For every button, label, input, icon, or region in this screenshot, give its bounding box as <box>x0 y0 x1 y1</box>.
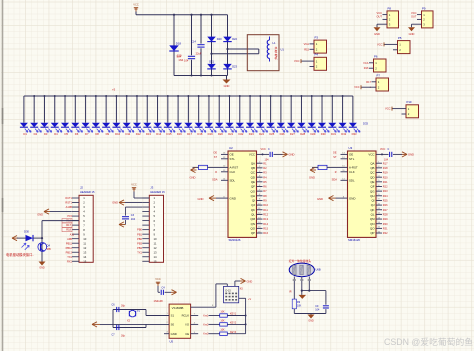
svg-text:CSDN @爱吃葡萄的鱼: CSDN @爱吃葡萄的鱼 <box>384 336 473 347</box>
svg-text:D29: D29 <box>310 132 315 136</box>
svg-text:VCC: VCC <box>155 277 161 281</box>
svg-text:R25: R25 <box>383 199 388 203</box>
svg-text:D5: D5 <box>65 132 69 136</box>
svg-text:15: 15 <box>83 259 87 263</box>
svg-text:GND: GND <box>289 153 295 157</box>
svg-text:U2: U2 <box>229 146 233 150</box>
svg-text:QI: QI <box>252 199 255 203</box>
svg-text:D24: D24 <box>259 132 264 136</box>
svg-text:SDA: SDA <box>332 178 338 182</box>
svg-text:QJ: QJ <box>371 203 375 207</box>
svg-text:D30: D30 <box>24 230 29 234</box>
svg-text:104: 104 <box>265 158 270 161</box>
svg-text:VCA: VCA <box>363 61 369 65</box>
svg-text:QC: QC <box>370 171 374 175</box>
svg-text:GND: GND <box>230 196 236 200</box>
svg-text:A-RST: A-RST <box>230 166 239 170</box>
svg-text:OE: OE <box>349 153 353 157</box>
svg-text:GND: GND <box>190 175 196 179</box>
svg-text:PB4: PB4 <box>137 246 142 250</box>
svg-text:R17: R17 <box>366 80 371 84</box>
svg-text:RST1: RST1 <box>65 201 72 205</box>
svg-text:14: 14 <box>154 255 158 259</box>
svg-text:GND: GND <box>349 196 355 200</box>
svg-text:Km3: Km3 <box>203 333 209 336</box>
svg-text:D18: D18 <box>176 41 182 45</box>
svg-text:R2: R2 <box>263 166 267 170</box>
svg-text:VCC: VCC <box>249 153 255 157</box>
svg-text:14: 14 <box>83 255 87 259</box>
svg-text:红外一体化接收头: 红外一体化接收头 <box>289 259 312 263</box>
svg-text:OUT1: OUT1 <box>65 196 72 200</box>
svg-text:D17: D17 <box>187 132 192 136</box>
svg-text:D11: D11 <box>126 132 131 136</box>
svg-text:OUT: OUT <box>377 15 383 19</box>
svg-text:D15: D15 <box>167 132 172 136</box>
svg-text:QD: QD <box>370 175 374 179</box>
svg-text:QJ: QJ <box>251 203 255 207</box>
svg-text:A9B: A9B <box>67 237 72 241</box>
svg-text:R26: R26 <box>383 203 388 207</box>
svg-text:13: 13 <box>154 250 158 254</box>
svg-text:R15: R15 <box>263 226 268 230</box>
svg-text:QK: QK <box>370 208 374 212</box>
svg-text:QP: QP <box>370 231 374 235</box>
svg-text:C: C <box>268 148 270 151</box>
svg-text:D19: D19 <box>208 132 213 136</box>
svg-text:KEY1: KEY1 <box>230 313 237 316</box>
svg-text:QH: QH <box>251 194 255 198</box>
svg-text:QB: QB <box>251 166 255 170</box>
svg-text:R29: R29 <box>383 217 388 221</box>
svg-text:QE: QE <box>251 180 255 184</box>
svg-text:P3: P3 <box>315 36 319 40</box>
svg-text:VCC: VCC <box>385 107 391 111</box>
svg-text:Km1: Km1 <box>203 315 209 318</box>
svg-text:D22: D22 <box>232 37 237 41</box>
svg-text:GND: GND <box>408 153 414 157</box>
svg-text:GND: GND <box>247 279 253 283</box>
svg-text:P4: P4 <box>315 53 319 57</box>
svg-text:L1: L1 <box>273 41 276 45</box>
svg-text:VCC: VCC <box>133 2 139 6</box>
svg-text:1N4: 1N4 <box>178 58 183 62</box>
svg-text:A11: A11 <box>70 233 75 236</box>
svg-text:11: 11 <box>154 241 157 245</box>
svg-text:R12: R12 <box>263 213 268 217</box>
svg-text:SDL: SDL <box>349 178 355 182</box>
svg-text:D31: D31 <box>331 132 336 136</box>
svg-text:D4: D4 <box>54 132 58 136</box>
svg-text:30p: 30p <box>121 305 126 308</box>
svg-text:A10B: A10B <box>66 205 73 209</box>
svg-text:R: R <box>215 171 217 174</box>
svg-text:VCC: VCC <box>354 86 359 89</box>
svg-text:QB: QB <box>370 166 374 170</box>
svg-text:12: 12 <box>154 246 158 250</box>
svg-text:30p: 30p <box>121 334 126 337</box>
svg-text:C: C <box>388 148 390 151</box>
svg-text:QD: QD <box>251 175 255 179</box>
svg-text:D25: D25 <box>269 132 274 136</box>
svg-text:R14: R14 <box>263 222 268 226</box>
svg-text:R9: R9 <box>263 199 267 203</box>
svg-text:D3: D3 <box>44 132 48 136</box>
svg-text:QM: QM <box>370 217 375 221</box>
svg-text:12: 12 <box>83 246 87 250</box>
svg-text:R18: R18 <box>66 228 71 232</box>
svg-text:GND: GND <box>171 332 177 336</box>
svg-text:OE: OE <box>230 153 234 157</box>
svg-text:13: 13 <box>83 250 87 254</box>
svg-text:S0: S0 <box>171 323 175 327</box>
svg-text:P10: P10 <box>407 100 412 104</box>
svg-text:R21: R21 <box>383 180 388 184</box>
svg-text:SM16126: SM16126 <box>348 238 360 242</box>
svg-text:PB11: PB11 <box>66 241 73 245</box>
svg-text:ST: ST <box>214 156 218 159</box>
svg-text:U6B: U6B <box>316 268 321 272</box>
svg-text:电机驱动模块接口..: 电机驱动模块接口.. <box>6 252 34 257</box>
svg-text:R28: R28 <box>383 213 388 217</box>
svg-text:D14: D14 <box>156 132 161 136</box>
svg-text:PB0: PB0 <box>137 228 142 232</box>
svg-text:10: 10 <box>83 237 87 241</box>
svg-text:QL: QL <box>371 213 375 217</box>
svg-text:10K: 10K <box>220 319 225 322</box>
svg-text:D16: D16 <box>177 132 182 136</box>
svg-text:10K: 10K <box>220 311 225 314</box>
svg-text:QK: QK <box>251 208 255 212</box>
svg-text:CLK: CLK <box>349 170 355 174</box>
svg-text:HEADER 15: HEADER 15 <box>150 190 165 194</box>
svg-text:+V: +V <box>248 298 251 301</box>
svg-text:GND: GND <box>374 32 380 36</box>
svg-text:11: 11 <box>83 241 86 245</box>
svg-text:OE: OE <box>213 151 217 154</box>
svg-text:GND: GND <box>317 197 323 201</box>
svg-text:R8: R8 <box>263 194 267 198</box>
svg-text:KEY3: KEY3 <box>230 331 237 334</box>
svg-text:R20: R20 <box>383 175 388 179</box>
svg-text:P8: P8 <box>388 6 392 10</box>
svg-text:QE: QE <box>370 180 374 184</box>
svg-text:22uF: 22uF <box>196 52 202 56</box>
svg-text:R1: R1 <box>263 161 267 165</box>
svg-text:+5: +5 <box>112 88 116 92</box>
svg-text:QC: QC <box>251 171 255 175</box>
svg-text:KEY2: KEY2 <box>230 322 237 325</box>
svg-text:D2: D2 <box>34 132 38 136</box>
svg-text:D26: D26 <box>280 132 285 136</box>
svg-text:104: 104 <box>384 158 389 161</box>
svg-text:PB1: PB1 <box>137 232 142 236</box>
svg-text:U5: U5 <box>170 339 174 343</box>
svg-text:QO: QO <box>251 227 256 231</box>
svg-text:GND: GND <box>409 32 415 36</box>
svg-text:R7: R7 <box>263 189 267 193</box>
svg-text:R27: R27 <box>383 208 388 212</box>
svg-text:R3: R3 <box>263 171 267 175</box>
svg-text:R17: R17 <box>66 223 71 227</box>
svg-text:1N4148: 1N4148 <box>154 299 164 303</box>
svg-text:P5: P5 <box>398 36 402 40</box>
svg-text:SDA: SDA <box>212 178 218 182</box>
svg-text:R31: R31 <box>383 226 388 230</box>
svg-text:QA: QA <box>251 161 255 165</box>
svg-text:VCC: VCC <box>368 153 374 157</box>
svg-text:VCA: VCA <box>304 42 310 46</box>
svg-text:R17: R17 <box>383 161 388 165</box>
svg-text:D-15: D-15 <box>226 290 232 293</box>
svg-text:D20: D20 <box>218 132 223 136</box>
svg-text:R15: R15 <box>304 47 309 51</box>
svg-text:QM: QM <box>250 217 255 221</box>
svg-text:TX1: TX1 <box>137 250 142 254</box>
svg-text:QF: QF <box>251 185 255 189</box>
svg-text:QP: QP <box>251 231 255 235</box>
svg-text:VCC: VCC <box>411 11 417 15</box>
svg-text:QG: QG <box>370 189 375 193</box>
svg-text:R24: R24 <box>383 194 388 198</box>
svg-text:PB13: PB13 <box>66 250 73 254</box>
svg-text:CLK: CLK <box>230 170 236 174</box>
svg-text:P7: P7 <box>377 73 381 77</box>
svg-text:VCC: VCC <box>380 148 385 151</box>
svg-text:R19: R19 <box>383 171 388 175</box>
svg-text:D7: D7 <box>85 132 89 136</box>
svg-text:104: 104 <box>315 309 320 312</box>
svg-text:GND: GND <box>198 197 204 201</box>
svg-text:VCC: VCC <box>377 42 383 46</box>
svg-text:R4: R4 <box>263 175 267 179</box>
svg-text:PB3: PB3 <box>137 241 142 245</box>
svg-text:R32: R32 <box>383 231 388 235</box>
svg-text:R30: R30 <box>383 222 388 226</box>
svg-text:J3: J3 <box>150 186 153 190</box>
svg-text:D21: D21 <box>209 60 214 64</box>
svg-text:QF: QF <box>370 185 374 189</box>
svg-text:HEADER 15: HEADER 15 <box>80 190 95 194</box>
svg-text:R16: R16 <box>364 66 369 70</box>
svg-text:PB12: PB12 <box>66 246 73 250</box>
svg-text:VCC: VCC <box>294 59 300 63</box>
svg-text:D1: D1 <box>23 132 27 136</box>
svg-text:D9: D9 <box>106 132 110 136</box>
svg-text:104: 104 <box>184 59 189 63</box>
svg-text:D18: D18 <box>197 132 202 136</box>
svg-text:QH: QH <box>370 194 374 198</box>
svg-text:QA: QA <box>370 161 374 165</box>
svg-text:D12: D12 <box>136 132 141 136</box>
svg-text:Q4: Q4 <box>47 243 51 247</box>
svg-text:VCC: VCC <box>261 148 266 151</box>
svg-text:S1: S1 <box>171 314 175 318</box>
svg-text:R16: R16 <box>263 231 268 235</box>
svg-text:R10: R10 <box>263 203 268 207</box>
svg-text:C14: C14 <box>191 40 196 44</box>
svg-text:P6: P6 <box>374 54 378 58</box>
svg-text:VCC: VCC <box>131 182 137 186</box>
svg-text:D21: D21 <box>228 132 233 136</box>
svg-text:ST: ST <box>333 156 337 159</box>
svg-text:QN: QN <box>251 222 255 226</box>
svg-text:10K: 10K <box>297 305 302 308</box>
svg-text:RX1: RX1 <box>67 259 73 263</box>
svg-text:D33: D33 <box>363 122 368 126</box>
svg-text:D27: D27 <box>290 132 295 136</box>
svg-text:D23: D23 <box>232 64 237 68</box>
svg-text:OE: OE <box>333 151 337 154</box>
svg-text:GND: GND <box>39 267 45 270</box>
svg-text:VS1838B: VS1838B <box>172 306 184 310</box>
svg-text:P9: P9 <box>422 6 426 10</box>
svg-text:Km2: Km2 <box>203 323 209 326</box>
svg-text:GND: GND <box>37 212 43 216</box>
svg-text:QL: QL <box>251 213 255 217</box>
svg-text:GND: GND <box>309 175 315 179</box>
svg-text:SM16126: SM16126 <box>229 238 241 242</box>
svg-text:STL: STL <box>230 157 236 161</box>
svg-text:OUT: OUT <box>411 15 417 19</box>
svg-text:10K: 10K <box>220 329 225 332</box>
svg-text:QI: QI <box>371 199 374 203</box>
svg-text:R13: R13 <box>263 217 268 221</box>
svg-text:TX1: TX1 <box>67 255 72 259</box>
svg-text:GND: GND <box>112 201 118 205</box>
svg-text:S85: S85 <box>47 248 52 251</box>
svg-text:R: R <box>335 171 337 174</box>
svg-text:D23: D23 <box>249 132 254 136</box>
svg-text:CE: CE <box>185 332 189 336</box>
svg-text:D28: D28 <box>300 132 305 136</box>
svg-text:GND: GND <box>308 320 314 323</box>
svg-text:D32: D32 <box>341 132 346 136</box>
svg-text:U1: U1 <box>281 48 285 52</box>
svg-text:15: 15 <box>154 259 158 263</box>
svg-text:104: 104 <box>131 218 136 221</box>
svg-text:SDL: SDL <box>230 178 236 182</box>
svg-text:QG: QG <box>251 189 256 193</box>
svg-text:10: 10 <box>154 237 158 241</box>
svg-text:U3: U3 <box>349 146 353 150</box>
svg-text:VCC: VCC <box>377 11 383 15</box>
svg-text:P15: P15 <box>67 214 72 218</box>
svg-text:R5: R5 <box>263 180 267 184</box>
svg-text:R22: R22 <box>383 185 388 189</box>
svg-text:D8: D8 <box>95 132 99 136</box>
svg-text:D33: D33 <box>352 132 357 136</box>
svg-text:GND: GND <box>224 84 230 88</box>
svg-text:RCLK: RCLK <box>182 314 190 318</box>
svg-text:QN: QN <box>370 222 374 226</box>
svg-text:PB2: PB2 <box>137 237 142 241</box>
svg-text:IR: IR <box>289 290 292 293</box>
svg-text:C19: C19 <box>177 54 182 58</box>
svg-text:D30: D30 <box>321 132 326 136</box>
svg-text:R18: R18 <box>383 166 388 170</box>
svg-text:D20: D20 <box>217 37 222 41</box>
svg-text:J2: J2 <box>80 186 83 190</box>
svg-text:QO: QO <box>370 227 375 231</box>
svg-text:D10: D10 <box>115 132 120 136</box>
svg-text:D13: D13 <box>146 132 151 136</box>
svg-text:STL: STL <box>349 157 355 161</box>
svg-text:D22: D22 <box>239 132 244 136</box>
svg-text:R11: R11 <box>263 208 268 212</box>
svg-text:R6: R6 <box>263 185 267 189</box>
svg-text:D6: D6 <box>75 132 79 136</box>
svg-text:R23: R23 <box>383 189 388 193</box>
svg-text:A-RST: A-RST <box>349 166 358 170</box>
svg-text:机: 机 <box>275 55 278 60</box>
